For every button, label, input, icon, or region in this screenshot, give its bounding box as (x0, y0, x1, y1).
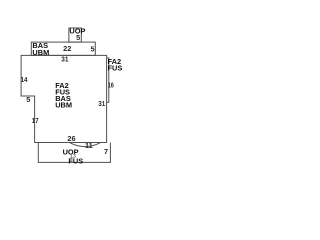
svg-text:5: 5 (26, 95, 30, 104)
svg-text:13: 13 (70, 154, 76, 160)
svg-text:5: 5 (76, 33, 80, 42)
svg-text:26: 26 (67, 134, 75, 143)
svg-text:5: 5 (91, 44, 95, 53)
svg-text:16: 16 (108, 81, 114, 90)
svg-text:UBM: UBM (32, 48, 49, 57)
main building outline (21, 55, 107, 142)
right bay strip outline (107, 58, 109, 102)
UOP porch box outline (top) (69, 28, 81, 42)
svg-text:22: 22 (63, 44, 71, 53)
svg-text:31: 31 (98, 99, 105, 108)
svg-text:14: 14 (21, 75, 29, 84)
svg-text:UBM: UBM (55, 100, 72, 109)
bottom UOP/FUS strip outline (38, 143, 110, 163)
svg-text:11: 11 (85, 141, 93, 150)
svg-text:17: 17 (32, 116, 39, 125)
svg-text:31: 31 (61, 55, 68, 64)
curved porch arc (70, 143, 100, 147)
svg-text:7: 7 (104, 147, 108, 156)
svg-text:FUS: FUS (108, 64, 123, 73)
BAS/UBM band outline (31, 42, 95, 55)
